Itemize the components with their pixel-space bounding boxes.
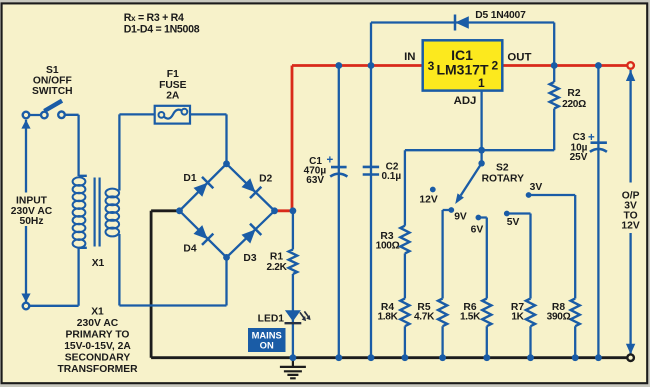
svg-text:D3: D3 [243,253,256,264]
svg-text:ON/OFF: ON/OFF [33,76,72,87]
svg-text:100Ω: 100Ω [376,240,400,251]
svg-text:X1: X1 [91,307,104,318]
svg-text:ON: ON [260,340,274,351]
svg-text:1K: 1K [511,311,524,322]
svg-text:0.1µ: 0.1µ [381,171,401,182]
svg-text:OUT: OUT [507,52,531,64]
svg-text:INPUT: INPUT [16,195,48,206]
svg-text:+: + [588,132,595,144]
svg-text:2A: 2A [166,91,180,102]
svg-text:230V AC: 230V AC [11,206,53,217]
svg-text:SECONDARY: SECONDARY [65,353,131,364]
svg-text:C3: C3 [573,132,586,143]
svg-text:230V AC: 230V AC [77,318,119,329]
svg-text:Rx = R3 + R4: Rx = R3 + R4 [124,12,184,24]
svg-text:IN: IN [404,51,415,63]
svg-text:5V: 5V [507,217,520,228]
svg-text:12V: 12V [419,195,437,206]
svg-text:SWITCH: SWITCH [32,86,73,97]
svg-text:LED1: LED1 [258,314,285,325]
svg-text:X1: X1 [92,258,105,269]
svg-text:390Ω: 390Ω [547,311,571,322]
svg-text:4.7K: 4.7K [414,311,435,322]
svg-text:+: + [326,155,333,167]
svg-text:TRANSFORMER: TRANSFORMER [57,364,138,375]
svg-text:2: 2 [491,59,498,73]
svg-text:1.5K: 1.5K [460,311,481,322]
svg-text:ADJ: ADJ [454,95,477,107]
svg-text:3V: 3V [530,182,543,193]
svg-text:S1: S1 [46,65,59,76]
svg-text:S2: S2 [496,163,509,174]
svg-text:3: 3 [428,59,435,73]
svg-text:D4: D4 [183,244,196,255]
svg-text:PRIMARY TO: PRIMARY TO [66,330,130,341]
svg-text:D1-D4 = 1N5008: D1-D4 = 1N5008 [124,23,200,35]
svg-text:R1: R1 [270,252,283,263]
svg-text:12V: 12V [621,221,639,232]
svg-text:25V: 25V [570,152,588,163]
svg-text:63V: 63V [306,175,324,186]
svg-text:FUSE: FUSE [159,80,187,91]
svg-text:ROTARY: ROTARY [482,174,524,185]
svg-text:1: 1 [478,76,485,90]
svg-text:220Ω: 220Ω [562,99,586,110]
svg-text:D5 1N4007: D5 1N4007 [475,10,526,21]
svg-text:F1: F1 [167,69,179,80]
svg-text:6V: 6V [471,224,484,235]
svg-text:D1: D1 [183,173,196,184]
svg-text:R2: R2 [567,88,580,99]
svg-text:15V-0-15V, 2A: 15V-0-15V, 2A [64,341,131,352]
svg-text:D2: D2 [259,174,272,185]
svg-text:9V: 9V [454,212,467,223]
svg-text:50Hz: 50Hz [19,216,43,227]
svg-text:2.2K: 2.2K [266,262,287,273]
svg-text:1.8K: 1.8K [377,311,398,322]
